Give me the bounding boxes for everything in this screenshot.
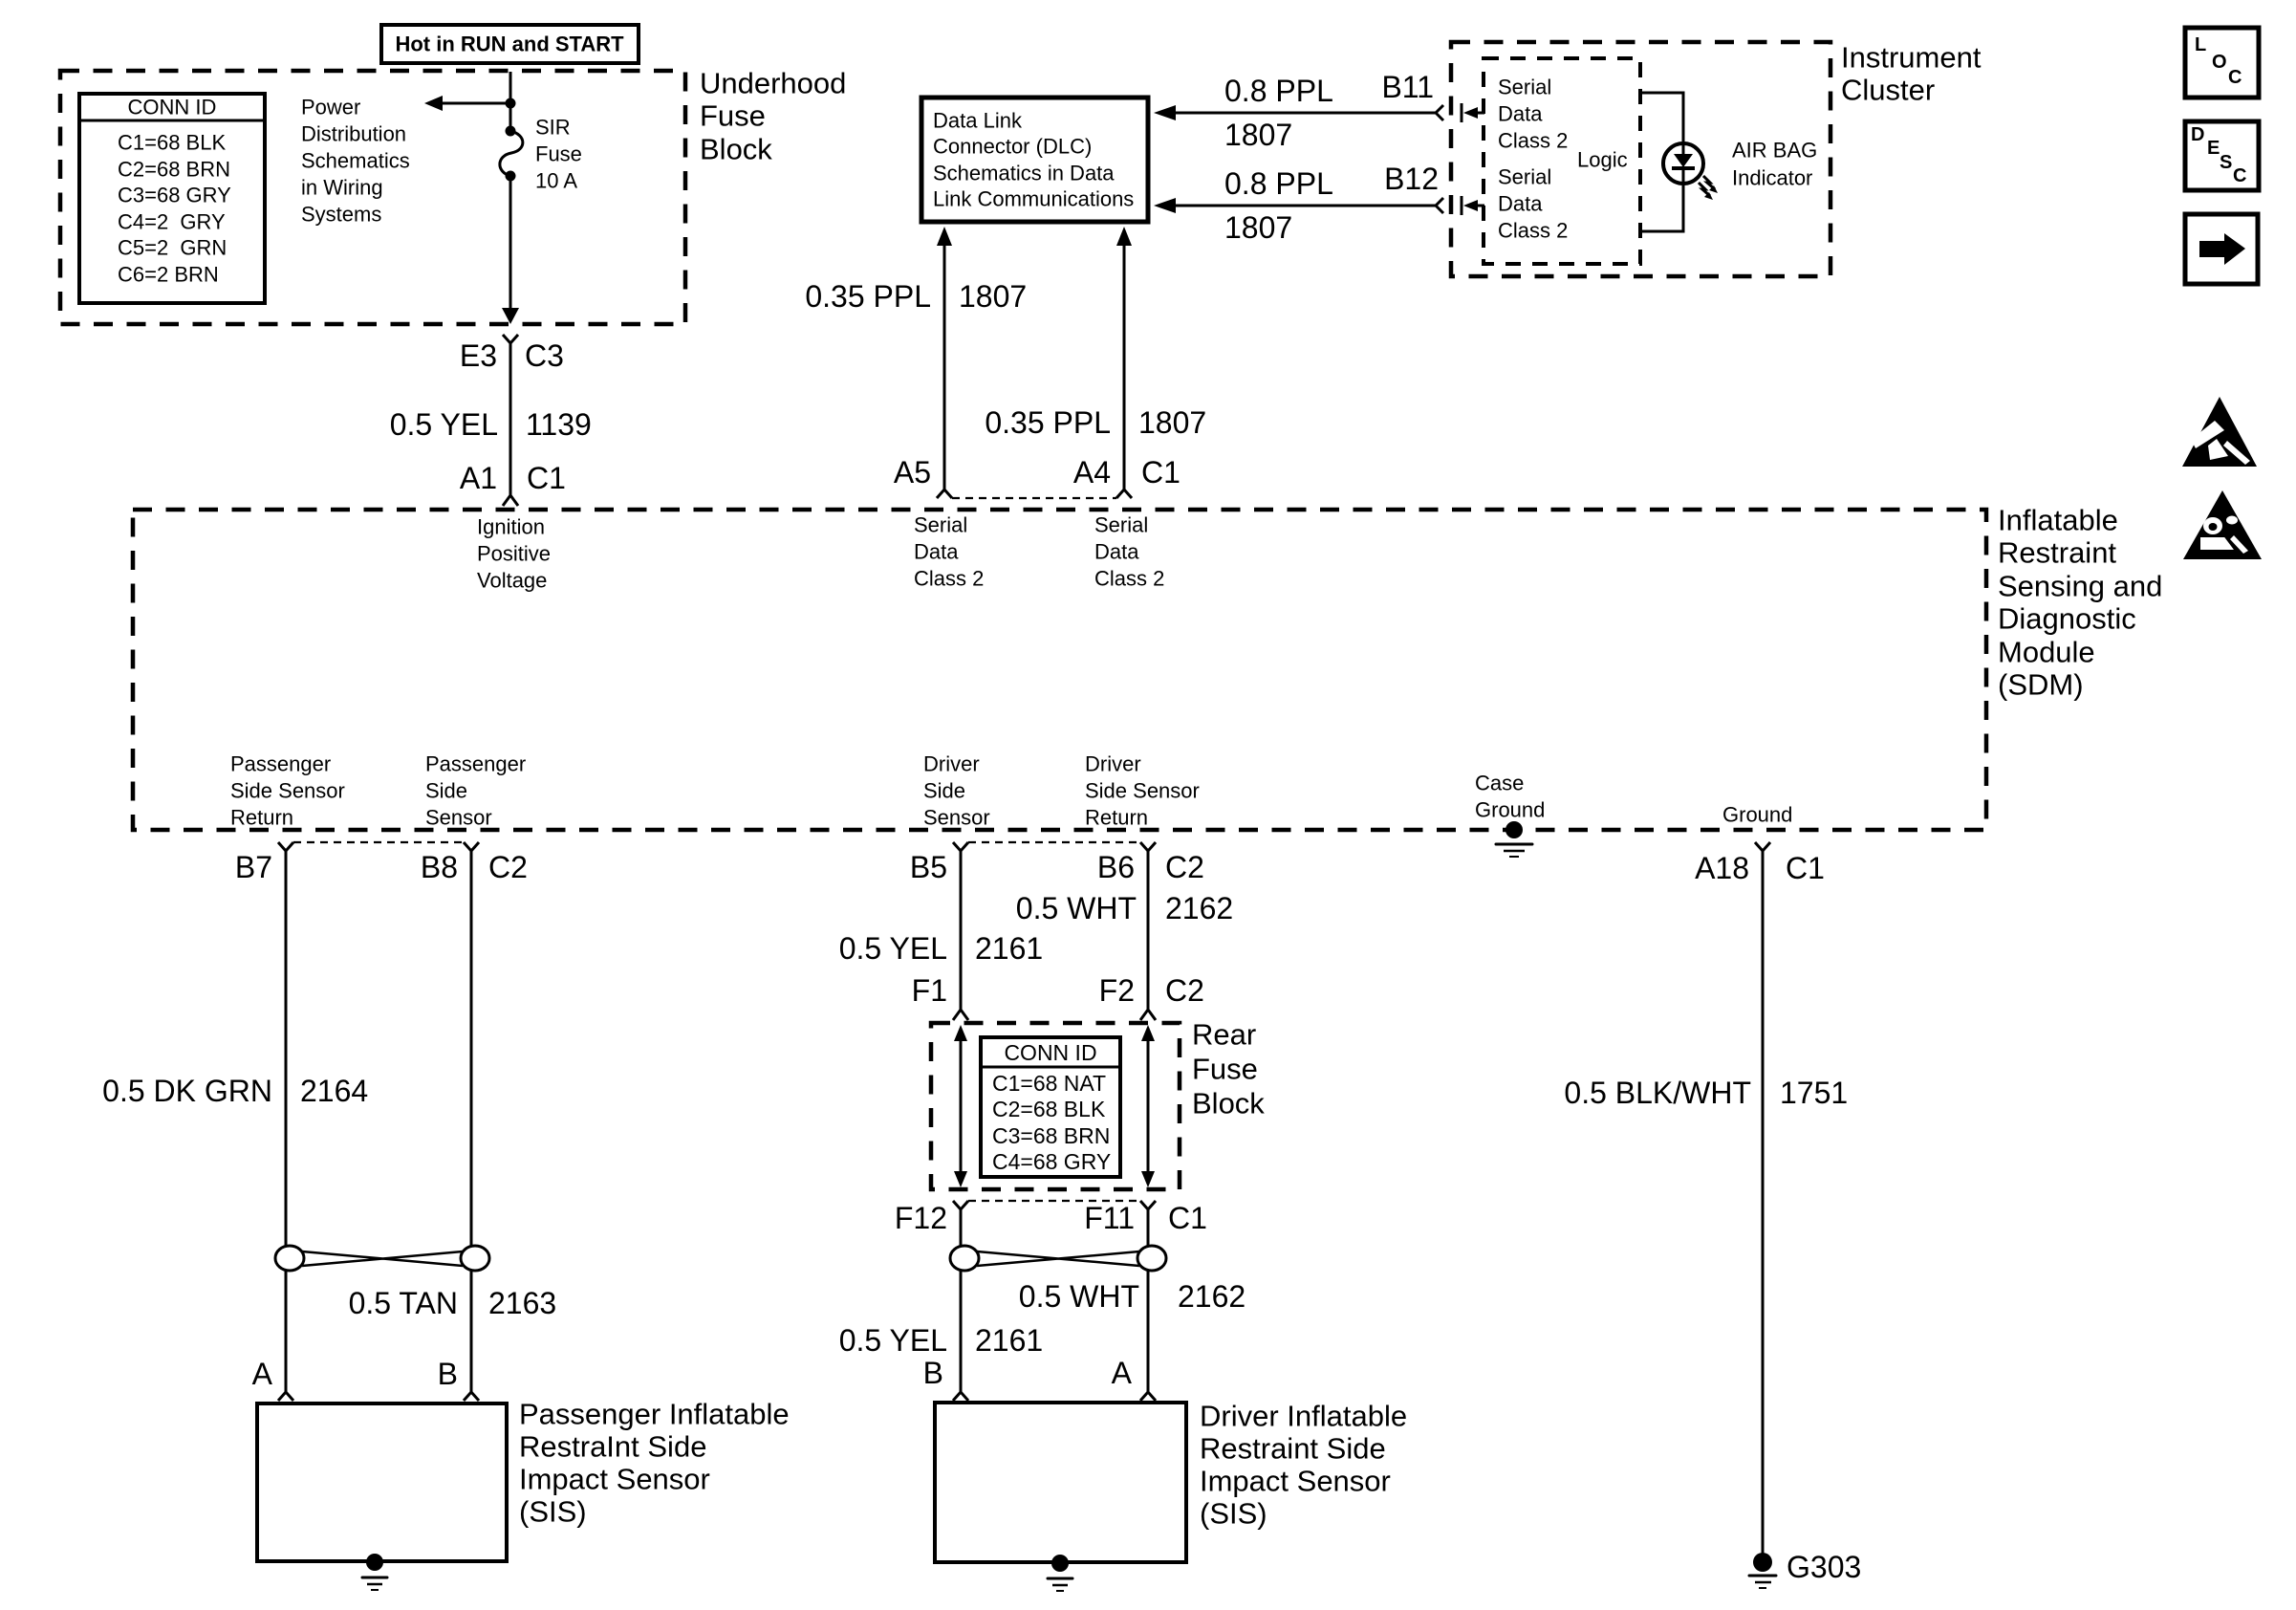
svg-text:1807: 1807 [1138, 405, 1206, 440]
connector A18/C1 (SDM ground) [1695, 842, 1825, 885]
wire 0.5 WHT 2162 upper [1016, 860, 1233, 994]
case ground label [1475, 772, 1545, 822]
svg-text:F2: F2 [1099, 973, 1135, 1008]
svg-text:RestraInt Side: RestraInt Side [519, 1430, 706, 1464]
ESD warning triangle [2182, 397, 2257, 467]
svg-text:Passenger: Passenger [425, 752, 526, 776]
svg-text:O: O [2212, 52, 2227, 73]
svg-text:Distribution: Distribution [301, 122, 406, 146]
svg-text:10 A: 10 A [535, 169, 577, 193]
wire 0.5 BLK/WHT 1751 [1564, 860, 1848, 1555]
svg-text:(SIS): (SIS) [519, 1495, 587, 1529]
svg-text:Inflatable: Inflatable [1998, 504, 2118, 537]
rear fuse block (dashed box) [931, 1023, 1180, 1189]
node serial data class 2 (A4) [1094, 513, 1164, 591]
svg-text:Systems: Systems [301, 203, 381, 227]
svg-text:A1: A1 [460, 461, 497, 495]
arrow to power distribution schematics [424, 96, 510, 111]
connector F11/C1 (rear fuse block bottom right) [968, 1201, 1207, 1235]
wire 0.5 DK GRN 2164 [102, 860, 368, 1247]
svg-text:Fuse: Fuse [1192, 1053, 1258, 1086]
svg-text:C3: C3 [525, 338, 564, 373]
svg-text:C5=2 GRN: C5=2 GRN [118, 236, 227, 260]
svg-text:C2=68 BRN: C2=68 BRN [118, 158, 230, 182]
svg-text:Fuse: Fuse [700, 99, 766, 133]
CONN ID table (underhood fuse block) [79, 94, 265, 303]
svg-text:C4=68 GRY: C4=68 GRY [992, 1149, 1111, 1174]
passenger SIS ground symbol [362, 1554, 387, 1590]
connector F12 (rear fuse block bottom left) [895, 1201, 968, 1235]
fuse label SIR Fuse 10 A [535, 116, 582, 193]
connector B8/C2 (passenger side sensor) [293, 842, 528, 884]
svg-text:0.5 YEL: 0.5 YEL [839, 1323, 947, 1358]
svg-text:Block: Block [1192, 1087, 1265, 1120]
node serial data class 2 (A5) [914, 513, 984, 591]
svg-text:1807: 1807 [1224, 118, 1292, 152]
node ignition positive voltage [477, 515, 551, 593]
SDM label [1998, 504, 2162, 702]
svg-text:Driver: Driver [1085, 752, 1141, 776]
connector A4/C1 (SDM) [952, 455, 1180, 498]
svg-text:E: E [2207, 138, 2220, 159]
svg-text:C3=68 GRY: C3=68 GRY [118, 184, 231, 207]
DESC icon box [2185, 121, 2259, 190]
instrument cluster (dashed box) [1451, 42, 1830, 276]
instrument cluster internal arrow B11 [1462, 103, 1484, 122]
power feed box "Hot in RUN and START" [381, 25, 639, 63]
svg-text:C1=68 NAT: C1=68 NAT [992, 1071, 1106, 1096]
case ground symbol [1496, 821, 1532, 857]
svg-text:Serial: Serial [914, 513, 967, 537]
ground G303 [1749, 1550, 1861, 1588]
svg-text:Diagnostic: Diagnostic [1998, 602, 2136, 636]
svg-text:C1: C1 [1141, 455, 1180, 490]
svg-text:(SDM): (SDM) [1998, 668, 2084, 702]
wire B12 serial data 0.8 PPL 1807 from instrument cluster to DLC [1154, 162, 1443, 245]
svg-text:Block: Block [700, 133, 772, 166]
wire fuse output, circuit 1139, down to fuse block edge [502, 176, 519, 324]
underhood fuse block (dashed box) [60, 71, 685, 324]
svg-text:D: D [2191, 124, 2204, 145]
rear fuse block label [1192, 1018, 1265, 1120]
svg-text:0.5 DK GRN: 0.5 DK GRN [102, 1074, 272, 1108]
svg-text:Sensing and: Sensing and [1998, 570, 2162, 603]
svg-text:Schematics in Data: Schematics in Data [933, 162, 1115, 185]
svg-text:S: S [2220, 152, 2232, 173]
svg-text:B12: B12 [1384, 162, 1439, 196]
svg-text:Side Sensor: Side Sensor [230, 779, 345, 803]
svg-text:SIR: SIR [535, 116, 571, 140]
svg-text:C1: C1 [1168, 1201, 1207, 1235]
connector E3/C3 (fuse block output) [460, 335, 564, 373]
wire from hot feed down to junction [509, 72, 512, 103]
node driver side sensor [923, 752, 990, 830]
svg-text:Class 2: Class 2 [1498, 219, 1568, 243]
svg-text:Class 2: Class 2 [1498, 129, 1568, 153]
svg-text:Case: Case [1475, 772, 1524, 795]
instrument cluster internal arrow B12 [1462, 196, 1484, 215]
twisted pair (passenger SIS) [275, 1246, 489, 1271]
svg-text:L: L [2195, 34, 2206, 55]
CONN ID table (rear fuse block) [981, 1037, 1120, 1177]
SDM module (dashed box) [133, 510, 1986, 830]
svg-text:Restraint Side: Restraint Side [1200, 1432, 1386, 1466]
svg-text:CONN ID: CONN ID [128, 96, 217, 120]
svg-text:Connector (DLC): Connector (DLC) [933, 135, 1092, 159]
connector A5 (SDM) [894, 455, 952, 498]
svg-text:2161: 2161 [975, 931, 1043, 966]
wire logic to air bag indicator (top) [1640, 93, 1683, 143]
svg-text:0.5 YEL: 0.5 YEL [839, 931, 947, 966]
connector B6/C2 (driver side sensor return) [968, 842, 1204, 884]
wire passenger side sensor 2163 upper [470, 860, 473, 1247]
twisted pair (driver SIS) [950, 1246, 1166, 1271]
svg-text:Passenger: Passenger [230, 752, 331, 776]
svg-text:A4: A4 [1073, 455, 1111, 490]
passenger inflatable restraint side impact sensor box [257, 1403, 507, 1561]
svg-text:Sensor: Sensor [425, 806, 492, 830]
connector A1/C1 (SDM ignition input) [460, 461, 566, 506]
svg-text:0.5 WHT: 0.5 WHT [1016, 891, 1137, 925]
svg-text:0.8 PPL: 0.8 PPL [1224, 74, 1333, 108]
svg-text:Data: Data [1498, 192, 1543, 216]
svg-text:Data: Data [1094, 540, 1139, 564]
wire serial data class 2 from SDM A5 to DLC, 0.35 PPL 1807 [805, 227, 1027, 481]
svg-text:Hot in RUN and START: Hot in RUN and START [395, 33, 624, 56]
svg-text:Schematics: Schematics [301, 149, 410, 173]
driver inflatable restraint side impact sensor box [935, 1403, 1186, 1562]
underhood fuse block label [700, 67, 846, 166]
connector B (driver SIS) [923, 1356, 968, 1401]
svg-text:1807: 1807 [959, 279, 1027, 314]
svg-text:Impact Sensor: Impact Sensor [519, 1463, 710, 1496]
pass-through wire left inside rear fuse block [954, 1025, 967, 1187]
node passenger side sensor return [230, 752, 345, 830]
svg-text:C1: C1 [1786, 851, 1825, 885]
node driver side sensor return [1085, 752, 1200, 830]
svg-text:Impact Sensor: Impact Sensor [1200, 1465, 1391, 1498]
svg-text:A18: A18 [1695, 851, 1749, 885]
svg-text:A: A [1112, 1356, 1133, 1390]
svg-text:Rear: Rear [1192, 1018, 1256, 1052]
svg-text:C: C [2233, 165, 2246, 186]
svg-text:Serial: Serial [1498, 165, 1551, 189]
LED light arrows [1699, 176, 1718, 200]
svg-text:C2=68 BLK: C2=68 BLK [992, 1097, 1106, 1121]
svg-text:0.5 BLK/WHT: 0.5 BLK/WHT [1564, 1076, 1751, 1110]
svg-text:C2: C2 [1165, 850, 1204, 884]
fuse SIR Fuse 10 A [500, 126, 523, 182]
driver SIS ground symbol [1048, 1555, 1072, 1591]
svg-text:CONN ID: CONN ID [1004, 1040, 1096, 1065]
svg-text:Instrument: Instrument [1841, 41, 1982, 75]
svg-text:Serial: Serial [1498, 76, 1551, 99]
serial data class 2 label (lower) [1498, 165, 1568, 243]
svg-text:2162: 2162 [1178, 1279, 1245, 1314]
svg-text:Link Communications: Link Communications [933, 187, 1134, 211]
svg-text:Class 2: Class 2 [914, 567, 984, 591]
svg-text:Serial: Serial [1094, 513, 1148, 537]
svg-text:Side Sensor: Side Sensor [1085, 779, 1200, 803]
wire driver sensor lower left [960, 1219, 963, 1247]
svg-text:C2: C2 [488, 850, 528, 884]
wire 0.5 YEL 2161 upper [839, 860, 1043, 994]
svg-text:Sensor: Sensor [923, 806, 990, 830]
svg-text:1807: 1807 [1224, 210, 1292, 245]
junction node with dot [506, 98, 516, 109]
svg-text:C1: C1 [527, 461, 566, 495]
svg-text:Driver Inflatable: Driver Inflatable [1200, 1400, 1407, 1433]
svg-text:C: C [2228, 67, 2242, 88]
svg-text:Return: Return [230, 806, 293, 830]
svg-text:0.8 PPL: 0.8 PPL [1224, 166, 1333, 201]
svg-text:Data: Data [1498, 102, 1543, 126]
svg-text:Ignition: Ignition [477, 515, 545, 539]
svg-text:Data: Data [914, 540, 959, 564]
wire serial data class 2 from SDM A4 to DLC, 0.35 PPL 1807 [985, 227, 1206, 481]
pass-through wire right inside rear fuse block [1141, 1025, 1155, 1187]
svg-text:Driver: Driver [923, 752, 980, 776]
connector F1 (rear fuse block top left) [912, 973, 968, 1020]
svg-text:1751: 1751 [1780, 1076, 1848, 1110]
svg-text:G303: G303 [1787, 1550, 1861, 1584]
wire 0.5 WHT 2162 lower [1019, 1271, 1245, 1383]
svg-text:Fuse: Fuse [535, 142, 582, 166]
driver SIS label [1200, 1400, 1407, 1531]
wire driver return lower right [1147, 1219, 1150, 1247]
power distribution reference label [301, 96, 410, 227]
svg-text:0.5 YEL: 0.5 YEL [390, 407, 498, 442]
svg-text:2164: 2164 [300, 1074, 368, 1108]
svg-text:(SIS): (SIS) [1200, 1497, 1267, 1531]
svg-text:E3: E3 [460, 338, 497, 373]
ground label (A18) [1722, 803, 1792, 827]
svg-text:C3=68 BRN: C3=68 BRN [992, 1123, 1110, 1148]
svg-text:Positive: Positive [477, 542, 551, 566]
wire junction to fuse [509, 103, 512, 130]
svg-text:A: A [252, 1357, 273, 1391]
svg-text:Restraint: Restraint [1998, 536, 2116, 570]
svg-text:Ground: Ground [1722, 803, 1792, 827]
passenger SIS label [519, 1398, 790, 1529]
svg-text:Data Link: Data Link [933, 109, 1023, 133]
svg-text:Cluster: Cluster [1841, 74, 1935, 107]
svg-text:Voltage: Voltage [477, 569, 547, 593]
svg-text:Indicator: Indicator [1732, 166, 1812, 190]
svg-text:C4=2 GRY: C4=2 GRY [118, 210, 226, 234]
connector B (passenger SIS) [438, 1357, 479, 1401]
serial data class 2 label (upper) [1498, 76, 1568, 153]
svg-text:0.35 PPL: 0.35 PPL [985, 405, 1111, 440]
wire 0.5 YEL 2161 lower [839, 1271, 1043, 1383]
svg-text:Ground: Ground [1475, 798, 1545, 822]
svg-text:Class 2: Class 2 [1094, 567, 1164, 591]
svg-text:F1: F1 [912, 973, 947, 1008]
svg-text:in Wiring: in Wiring [301, 176, 383, 200]
arrow icon box [2185, 214, 2258, 284]
svg-text:Module: Module [1998, 636, 2095, 669]
svg-text:B5: B5 [910, 850, 947, 884]
svg-text:B7: B7 [235, 850, 272, 884]
connector F2/C2 (rear fuse block top right) [1099, 973, 1204, 1020]
svg-text:2161: 2161 [975, 1323, 1043, 1358]
svg-text:C2: C2 [1165, 973, 1204, 1008]
svg-text:Return: Return [1085, 806, 1148, 830]
svg-text:Passenger Inflatable: Passenger Inflatable [519, 1398, 790, 1431]
connector B5 (driver side sensor) [910, 842, 968, 884]
svg-text:0.5 TAN: 0.5 TAN [349, 1286, 458, 1320]
LOC icon box [2185, 28, 2259, 98]
svg-text:C6=2 BRN: C6=2 BRN [118, 263, 219, 287]
svg-text:Logic: Logic [1577, 148, 1628, 172]
svg-text:B8: B8 [421, 850, 458, 884]
svg-text:C1=68 BLK: C1=68 BLK [118, 131, 226, 155]
svg-text:B: B [438, 1357, 458, 1391]
svg-text:2162: 2162 [1165, 891, 1233, 925]
air bag indicator label [1732, 139, 1817, 190]
svg-text:0.35 PPL: 0.35 PPL [805, 279, 931, 314]
svg-text:Side: Side [923, 779, 965, 803]
svg-text:B6: B6 [1097, 850, 1135, 884]
svg-text:0.5 WHT: 0.5 WHT [1019, 1279, 1139, 1314]
svg-text:1139: 1139 [526, 407, 592, 442]
svg-text:Side: Side [425, 779, 467, 803]
connector A (passenger SIS) [252, 1357, 293, 1401]
SIR component warning triangle [2183, 490, 2262, 559]
wire B11 serial data 0.8 PPL 1807 from instrument cluster to DLC [1154, 70, 1443, 152]
instrument cluster label [1841, 41, 1982, 107]
svg-text:Underhood: Underhood [700, 67, 846, 100]
svg-text:F12: F12 [895, 1201, 947, 1235]
svg-text:Power: Power [301, 96, 360, 120]
svg-text:AIR BAG: AIR BAG [1732, 139, 1817, 163]
svg-text:F11: F11 [1084, 1201, 1135, 1235]
logic module (inner dashed box) [1484, 58, 1640, 264]
svg-text:B: B [923, 1356, 943, 1390]
connector A (driver SIS) [1112, 1356, 1156, 1401]
node passenger side sensor [425, 752, 526, 830]
air bag indicator LED [1663, 143, 1703, 184]
wire 0.5 YEL 1139 [390, 353, 592, 481]
svg-text:2163: 2163 [488, 1286, 556, 1320]
connector B7 (passenger side sensor return) [235, 842, 293, 884]
svg-text:A5: A5 [894, 455, 931, 490]
svg-text:B11: B11 [1381, 70, 1434, 104]
wire LED to logic (bottom) [1640, 184, 1683, 231]
wire 0.5 TAN 2163 [349, 1271, 557, 1383]
DLC reference box [921, 98, 1148, 222]
wire passenger return lower [285, 1271, 288, 1383]
